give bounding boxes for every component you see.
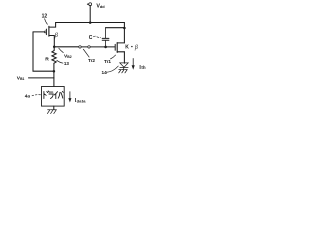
svg-text:Tr2: Tr2 (88, 58, 95, 63)
svg-text:Tr1: Tr1 (104, 59, 111, 64)
svg-text:13: 13 (64, 61, 70, 66)
svg-text:VB2: VB2 (64, 54, 72, 60)
svg-text:β: β (54, 32, 59, 39)
svg-text:C: C (89, 35, 93, 41)
svg-text:K: K (125, 45, 129, 51)
svg-text:R: R (45, 57, 49, 63)
svg-text:14: 14 (102, 70, 108, 75)
svg-text:4a: 4a (25, 94, 31, 99)
svg-text:Vdd: Vdd (96, 4, 105, 10)
svg-text:Ith: Ith (139, 65, 146, 71)
svg-text:VB1: VB1 (17, 75, 25, 81)
svg-text:12: 12 (42, 13, 48, 19)
svg-text:Idata: Idata (75, 98, 86, 104)
svg-text:β: β (134, 45, 138, 51)
